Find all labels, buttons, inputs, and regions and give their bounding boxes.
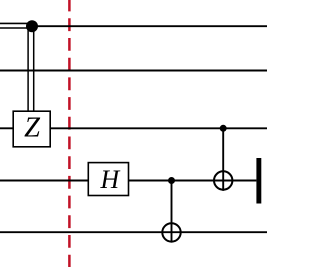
node control dot on q3 [168, 177, 175, 184]
wire q3 left segment [0, 180, 88, 182]
wire q4 [0, 231, 267, 233]
barrier bar (thick vertical bar at right, wire q3) [256, 158, 261, 204]
wire CNOT-1 vertical (control q3 to target q4) [171, 181, 173, 243]
node classical control dot [26, 20, 38, 32]
wire CNOT-2 vertical (control q2 to target q3) [222, 128, 224, 191]
gate CNOT-1 target on q4 [162, 223, 180, 241]
wire q2 left segment [0, 127, 13, 129]
svg-text:Z: Z [24, 113, 41, 144]
wire q1 [0, 70, 267, 72]
wire q0 (top wire, single, right of dot) [32, 25, 267, 27]
gate Z (box) [13, 111, 50, 147]
svg-text:H: H [100, 165, 121, 194]
gate CNOT-2 target on q3 [214, 171, 232, 189]
barrier (red dashed vertical line) [68, 0, 71, 267]
wire q2 right segment [50, 127, 267, 129]
wire q3 middle segment [129, 180, 257, 182]
wire c0 (classical double wire, top-left) [0, 23, 32, 28]
gate H (box) [88, 163, 128, 196]
wire (classical double vertical from control to Z gate) [28, 26, 34, 111]
node control dot on q2 [220, 125, 227, 132]
